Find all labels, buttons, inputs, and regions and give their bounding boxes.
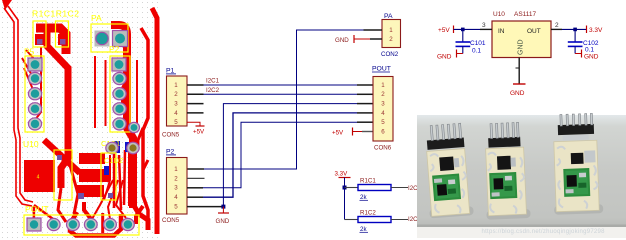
power 3.3V rail [335, 171, 351, 220]
node junction 3.3V/R1C1 [343, 186, 347, 190]
svg-text:OUT: OUT [527, 28, 541, 35]
wire OUT to 3.3V [551, 28, 562, 30]
wire left edge trace pair [4, 8, 32, 206]
svg-text:U10: U10 [23, 139, 39, 149]
resistor R1C1 [345, 178, 419, 202]
connector P2 pad column [110, 56, 130, 132]
wire thin diagonals feeding P5 [26, 50, 36, 61]
svg-text:4: 4 [37, 175, 40, 181]
wire P2.2 stub [187, 177, 205, 179]
svg-text:3: 3 [381, 101, 385, 108]
svg-text:+5V: +5V [332, 130, 344, 137]
svg-text:2: 2 [381, 91, 385, 98]
capacitor C102 [568, 29, 599, 53]
wire P1.4 stub [187, 112, 204, 114]
wire U10 GND pin down [516, 58, 520, 85]
module 1 sensor board [425, 123, 470, 216]
wire net V1 P2.5 to POUT.3 [223, 104, 373, 207]
wire bottom right thick elbow [133, 204, 148, 230]
pad PA pin1 [95, 31, 110, 47]
silkscreen box around C101 area [101, 153, 116, 200]
svg-text:GND: GND [216, 218, 230, 225]
svg-text:P5: P5 [24, 47, 35, 57]
svg-text:GND: GND [335, 37, 349, 44]
wire P2.5 to GND junction [187, 206, 223, 208]
svg-text:I2C: I2C [408, 185, 418, 192]
connector PA [381, 13, 401, 58]
wire diagonal to U10 [44, 140, 80, 173]
power GND bottom [510, 84, 526, 97]
power GND left [437, 50, 463, 61]
wire net V3 P2.3 to POUT.5 [203, 122, 373, 188]
wire R1C1 top bar trace [36, 28, 66, 54]
svg-text:CON5: CON5 [162, 132, 180, 139]
silkscreen yellow R footprints [33, 21, 46, 47]
svg-text:1: 1 [174, 82, 178, 89]
power GND right [575, 50, 599, 61]
wire fan traces to POUT pads [92, 180, 113, 219]
wire PA elbow thick trace [111, 25, 133, 208]
connector POUT bottom row [24, 215, 139, 235]
svg-text:3.3V: 3.3V [589, 27, 603, 34]
svg-text:5: 5 [381, 119, 385, 126]
wire right column feeder elbows [122, 80, 126, 104]
svg-text:0.1: 0.1 [585, 47, 594, 54]
svg-text:4: 4 [174, 194, 178, 201]
power +5V at POUT pin6 [332, 128, 373, 137]
svg-text:1: 1 [381, 82, 385, 89]
wire net V2 P2.4 to POUT.4 [203, 113, 373, 197]
resistor R1C2 [345, 210, 419, 234]
svg-text:3: 3 [174, 185, 178, 192]
svg-text:PA: PA [91, 13, 102, 23]
svg-text:+5V: +5V [438, 27, 450, 34]
power +5V left [438, 26, 454, 35]
svg-text:2: 2 [389, 36, 393, 43]
wire thick center-left vertical trace [47, 28, 68, 188]
wire P2.4 stub [187, 196, 203, 198]
power +5V at P1 pin5 [187, 122, 205, 135]
silkscreen box right of U10 [54, 150, 72, 200]
module 3 sensor board [553, 113, 599, 211]
connector POUT [372, 66, 393, 152]
svg-text:C101: C101 [470, 40, 486, 47]
via C101 [106, 142, 118, 154]
svg-text:CON6: CON6 [374, 145, 392, 152]
wire +5V to IN [454, 28, 481, 30]
wire P1.3 stub [187, 103, 204, 105]
wire right edge traces [141, 28, 148, 224]
wire top-left corner trace [2, 0, 12, 10]
svg-text:5: 5 [174, 204, 178, 211]
svg-text:0.1: 0.1 [472, 48, 481, 55]
svg-text:POUT: POUT [372, 66, 391, 73]
svg-text:+5V: +5V [193, 129, 205, 136]
svg-text:1: 1 [174, 166, 178, 173]
purple bits bottom [78, 193, 84, 199]
wire PA.1 to P2.1 [187, 30, 382, 169]
svg-text:3: 3 [482, 22, 486, 29]
svg-text:3.3V: 3.3V [335, 171, 349, 178]
regulator U10 AS1117 [492, 11, 551, 58]
svg-text:I2C1: I2C1 [206, 78, 220, 85]
wire U-trace under POUT pads [70, 212, 121, 236]
silkscreen PA box [91, 24, 128, 52]
svg-text:1: 1 [389, 27, 393, 34]
svg-text:R1C1R1C2: R1C1R1C2 [32, 9, 79, 19]
svg-text:4: 4 [174, 110, 178, 117]
svg-text:2: 2 [174, 175, 178, 182]
wire thin vertical at x95 [94, 56, 96, 128]
svg-text:U10: U10 [493, 11, 505, 18]
svg-text:3: 3 [174, 101, 178, 108]
svg-text:https://blog.csdn.net/zhuoqing: https://blog.csdn.net/zhuoqingjoking9729… [482, 229, 606, 235]
power 3.3V right [587, 26, 604, 35]
connector P1 [162, 68, 187, 139]
wire dense bundle bottom-right [113, 153, 116, 208]
power GND below P2 [216, 207, 230, 225]
svg-text:IN: IN [498, 28, 505, 35]
svg-text:GND: GND [584, 54, 599, 61]
svg-text:P2: P2 [166, 149, 175, 156]
wire thin vertical at x105 [105, 60, 107, 126]
pad R1C1 R1C2 smd pads top [35, 34, 44, 45]
wire I2C2 P1.2 to POUT.2 [187, 87, 373, 95]
node junction C101 [461, 28, 465, 32]
svg-text:GND: GND [518, 39, 525, 55]
pad SMD bars center (C101/C102 pads) [79, 153, 105, 164]
svg-text:R1C2: R1C2 [360, 210, 376, 217]
svg-text:GND: GND [437, 54, 452, 61]
svg-text:POUT: POUT [25, 204, 49, 214]
via right of P2 bottom [129, 122, 140, 132]
svg-text:P1: P1 [166, 68, 175, 75]
svg-text:2: 2 [555, 22, 559, 29]
svg-text:CON5: CON5 [162, 217, 180, 224]
pad PA pin2 [113, 31, 128, 47]
capacitor C101 [456, 29, 486, 54]
svg-text:4: 4 [381, 110, 385, 117]
wire blue patches near vias [114, 141, 120, 153]
connector P5 pad column [25, 56, 44, 132]
wire P2.3 stub [187, 187, 203, 189]
capacitor U10 body red square [24, 160, 55, 192]
svg-text:2: 2 [174, 91, 178, 98]
svg-text:AS1117: AS1117 [514, 11, 537, 18]
svg-text:CON2: CON2 [381, 51, 399, 58]
svg-text:6: 6 [381, 128, 385, 135]
module shadows [429, 206, 474, 218]
power GND at PA pin2 [335, 35, 382, 44]
svg-text:P2: P2 [109, 44, 120, 54]
svg-text:5: 5 [174, 119, 178, 126]
svg-text:GND: GND [510, 90, 525, 97]
via C102 [127, 142, 139, 154]
wire right of pad6 elbow [136, 206, 143, 224]
svg-text:C1D2: C1D2 [104, 156, 123, 165]
node junction GND [221, 205, 225, 209]
module 2 sensor board [485, 122, 527, 216]
svg-text:I2C: I2C [408, 216, 418, 223]
svg-text:I2C2: I2C2 [206, 87, 220, 94]
wire I2C1 P1.1 to POUT.1 [187, 78, 373, 86]
node junction C102 [573, 28, 577, 32]
connector P2 [162, 149, 187, 225]
wire stubs into pads 1-2 [33, 206, 36, 222]
svg-text:R1C1: R1C1 [360, 178, 376, 185]
